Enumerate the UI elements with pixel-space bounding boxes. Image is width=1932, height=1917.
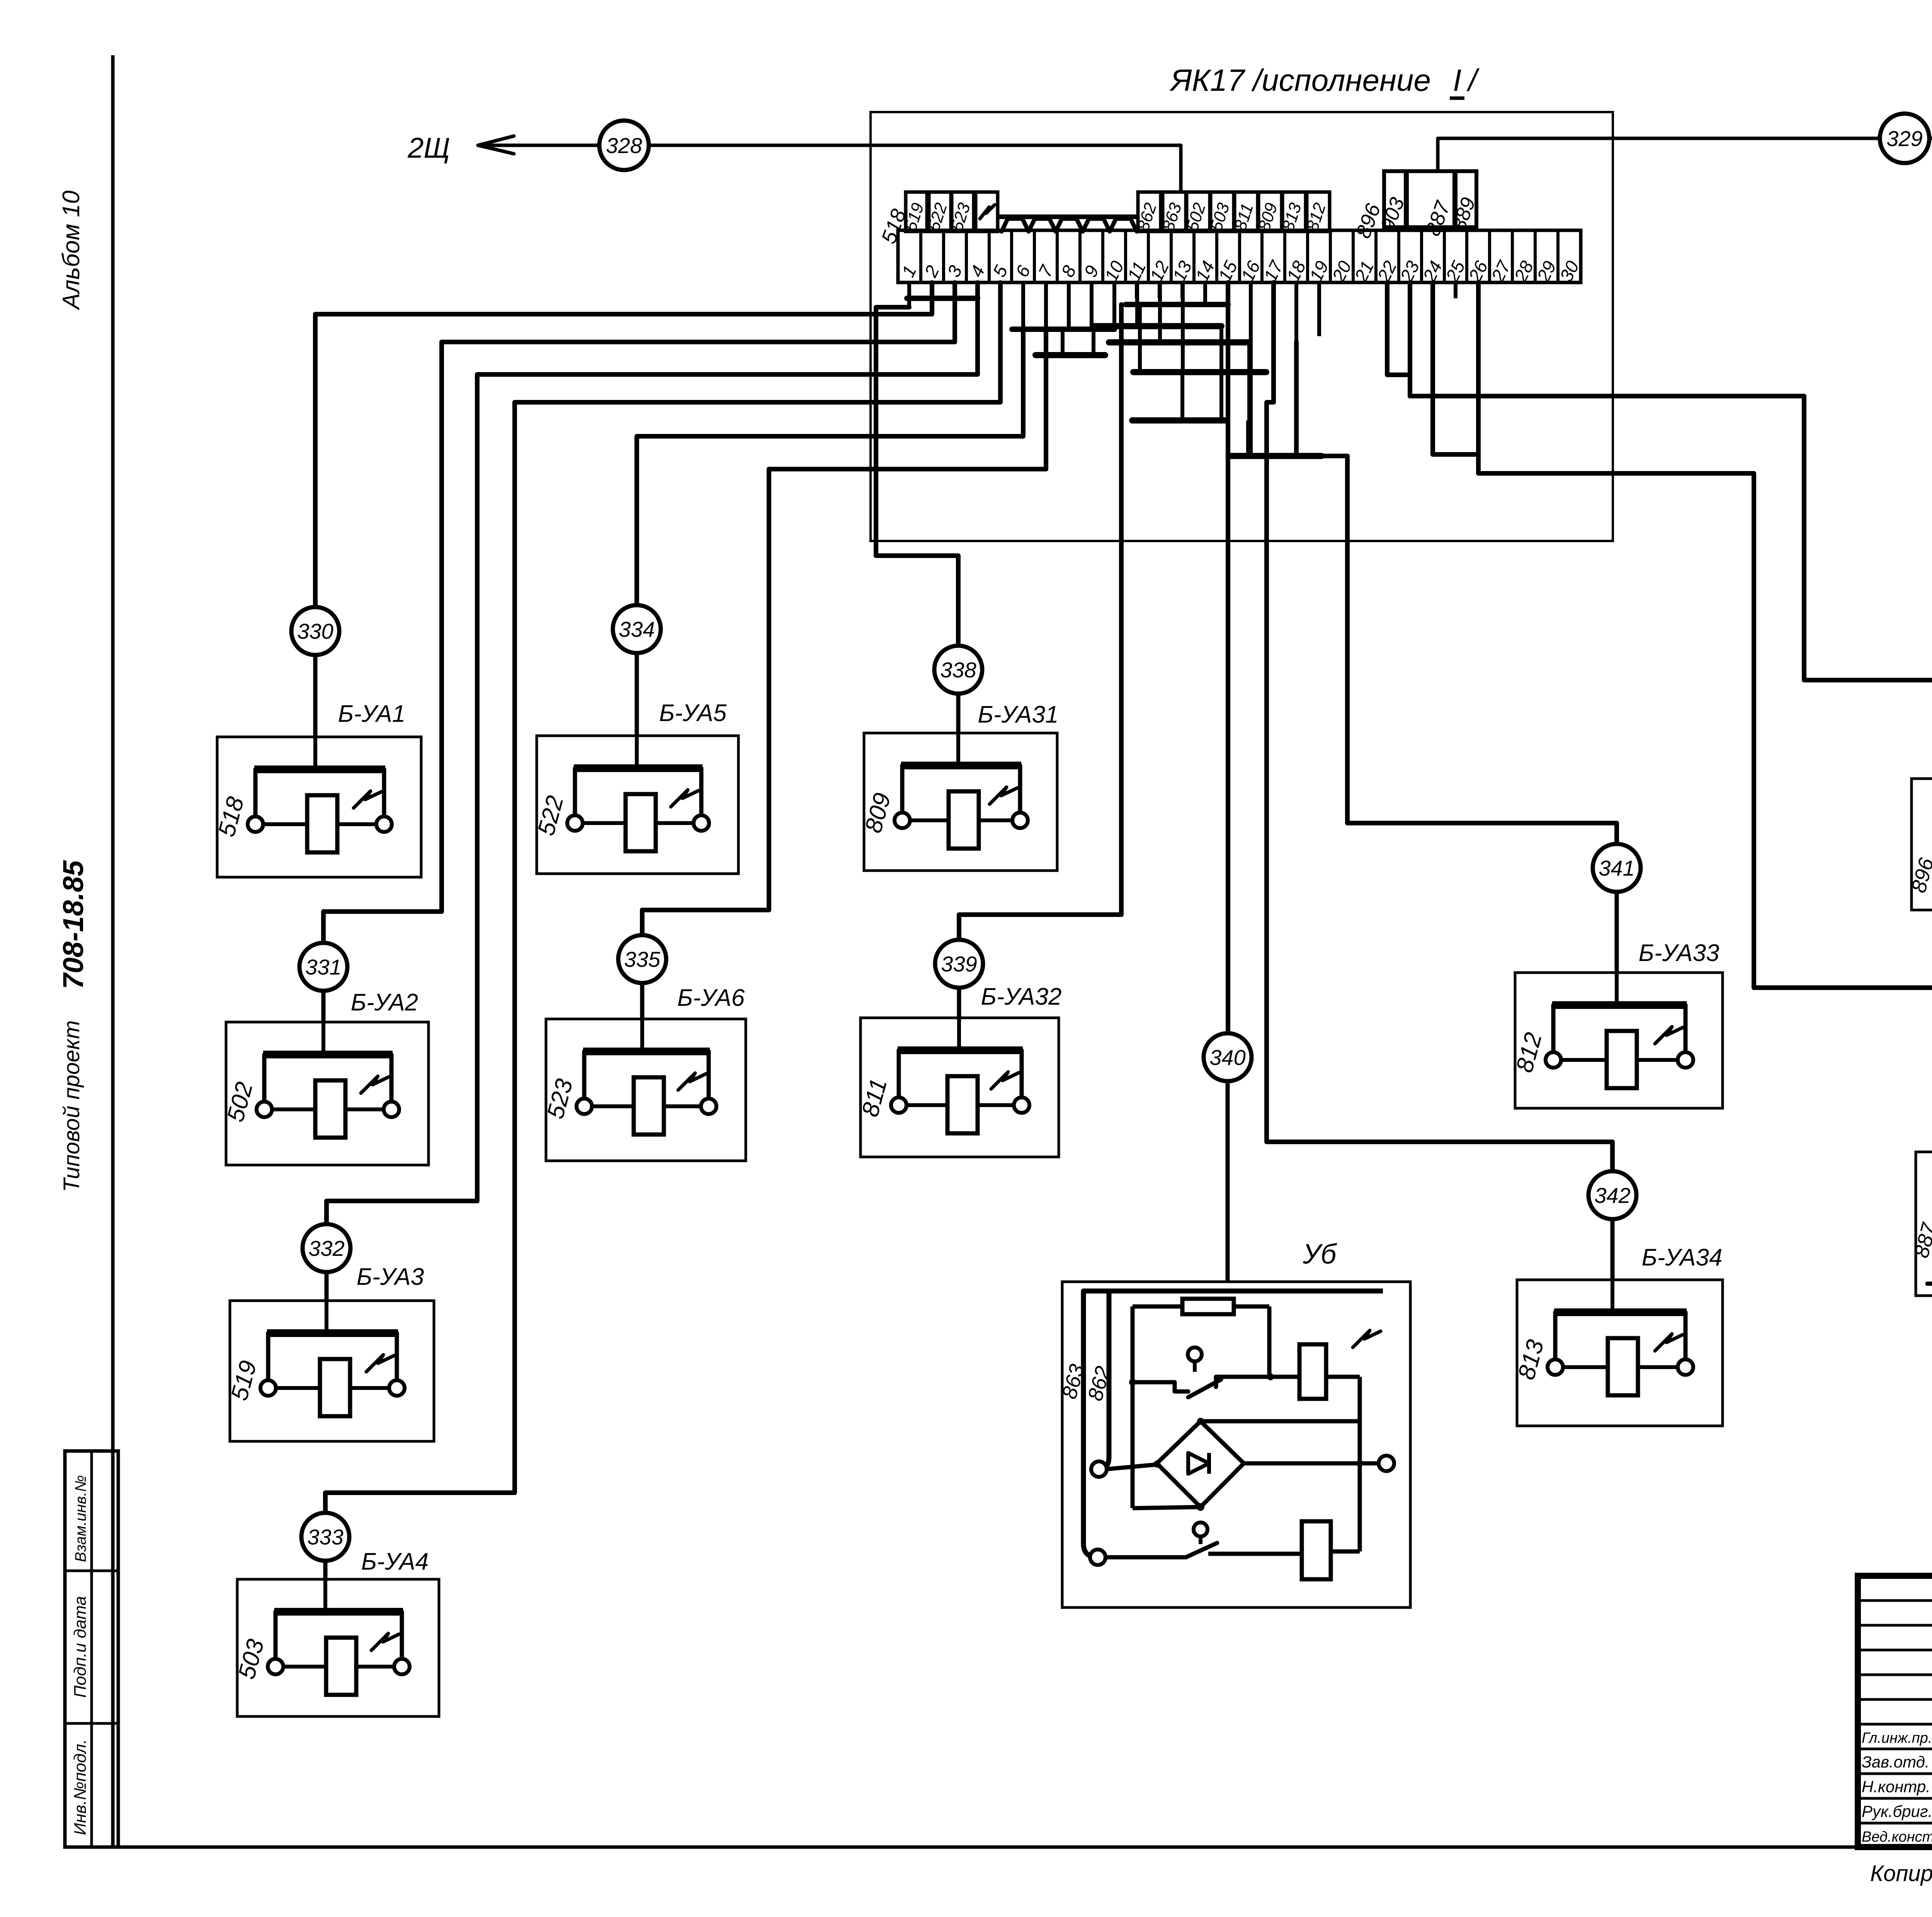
relay B-YA31 left lead [900, 765, 905, 813]
terminal divider 8 [1078, 230, 1082, 282]
VKB thermistor slash [1927, 1231, 1932, 1284]
svg-text:335: 335 [624, 947, 660, 971]
terminal divider 28 [1534, 230, 1537, 282]
relay B-YA3 top bar [267, 1329, 398, 1337]
relay B-YA33 left lead [1551, 1005, 1556, 1052]
sensor VKB box [1916, 1152, 1932, 1296]
node 332 wire-number circle [303, 1224, 350, 1272]
svg-text:330: 330 [297, 619, 333, 643]
relay B-YA1 right terminal [376, 816, 392, 832]
svg-text:Копировал: Копировал [1870, 1861, 1932, 1886]
node 328 wire-number circle [599, 121, 649, 170]
title block outer [1858, 1576, 1932, 1847]
node 334 wire-number circle [613, 605, 661, 653]
relay B-YA31 AC symbol [990, 787, 1017, 804]
svg-text:Взам.инв.№: Взам.инв.№ [72, 1475, 89, 1562]
svg-text:Б-УА33: Б-УА33 [1639, 940, 1719, 966]
Yb coil lower [1302, 1521, 1331, 1579]
relay B-YA6 right lead [707, 1051, 711, 1099]
jumper link 4 [1083, 219, 1110, 231]
wire 518 to circle 330 [315, 282, 932, 607]
relay B-YA34 left lead [1553, 1312, 1558, 1359]
relay B-YA32 top bar [898, 1046, 1023, 1054]
enclosure YAK17 box [871, 112, 1613, 541]
terminal divider 6 [1033, 230, 1036, 282]
svg-text:Б-УА2: Б-УА2 [351, 989, 418, 1016]
jumper link 2 [1029, 219, 1056, 231]
Yb bottom tap [1133, 1507, 1201, 1508]
relay B-YA4 coil 503 [283, 1665, 326, 1669]
terminal divider 22 [1397, 230, 1400, 282]
Yb resistor leads [1131, 1306, 1135, 1508]
bus under terminals 6-10 [1012, 327, 1114, 332]
wire 340 to Yb [1226, 1081, 1230, 1282]
wire label box 503 [1211, 192, 1234, 231]
relay B-YA3 right terminal [389, 1380, 405, 1396]
relay B-YA2 AC symbol [361, 1076, 389, 1093]
svg-text:Б-УА31: Б-УА31 [978, 701, 1059, 728]
relay B-YA4 top bar [274, 1608, 403, 1616]
terminal divider 12 [1170, 230, 1173, 282]
relay B-YA5 left terminal [567, 815, 583, 831]
node 339 wire-number circle [935, 940, 983, 988]
jumper link 3 [1056, 219, 1083, 231]
Yb left terminal 863 [1091, 1461, 1107, 1477]
relay B-YA5 right lead [699, 768, 704, 815]
Yb bridge right tap [1244, 1461, 1379, 1466]
terminal divider 10 [1124, 230, 1127, 282]
bus y844 [1094, 323, 1221, 329]
terminal divider 2 [942, 230, 945, 282]
svg-text:Рук.бриг.: Рук.бриг. [1862, 1802, 1932, 1820]
wire 333 to YA4 [323, 1561, 328, 1579]
relay B-YA4 box [237, 1579, 439, 1716]
node 329 wire-number circle [1880, 114, 1929, 163]
relay B-YA4 right terminal [394, 1659, 410, 1674]
terminal divider 15 [1238, 230, 1241, 282]
stub under terminal 19 [1317, 298, 1321, 336]
wire 335 to YA6 [640, 983, 645, 1019]
wire 862-863 pair to circle 340 [1226, 282, 1230, 1033]
Yb AC symbol [1353, 1330, 1381, 1347]
svg-text:I: I [1453, 63, 1461, 97]
relay B-YA1 left lead [253, 769, 258, 816]
terminal divider 23 [1420, 230, 1423, 282]
terminal divider 11 [1147, 230, 1150, 282]
terminal divider 18 [1306, 230, 1309, 282]
attribute table bottom-left [65, 1451, 118, 1847]
terminal stubs [907, 282, 911, 298]
relay B-YA3 left lead [266, 1333, 270, 1380]
wire 812 to circle 341 [1296, 342, 1617, 844]
relay B-YA34 box [1517, 1280, 1723, 1426]
relay B-YA31 right terminal [1012, 813, 1028, 828]
jumper link 5 [1110, 219, 1137, 231]
Yb inner top bar [1083, 1289, 1383, 1294]
relay B-YA6 box [546, 1019, 746, 1161]
wire 522 to circle 334 [637, 329, 1023, 605]
relay B-YA33 right lead [1684, 1005, 1688, 1052]
relay B-YA5 coil 522 [583, 821, 626, 825]
Yb left wire 863 [1083, 1291, 1098, 1557]
relay B-YA6 right terminal [701, 1099, 716, 1114]
relay B-YA1 AC symbol [354, 791, 381, 808]
bus y886 right [1109, 339, 1249, 345]
terminal divider 25 [1465, 230, 1468, 282]
relay B-YA3 coil 519 [276, 1386, 320, 1390]
node 330 wire-number circle [291, 607, 339, 655]
node 340 wire-number circle [1204, 1033, 1252, 1081]
Yb left terminal 862 [1090, 1550, 1105, 1565]
relay B-YA32 left terminal [891, 1097, 906, 1113]
relay B-YA34 right lead [1684, 1312, 1688, 1359]
bus under terminals 11-14 [1126, 302, 1228, 307]
wire 502 to circle 331 [323, 282, 955, 943]
relay B-YA32 coil 811 [906, 1103, 947, 1107]
sheet frame bottom border [65, 1846, 1932, 1849]
wire label box 813 [1282, 192, 1306, 231]
terminal strip XT 1..30 [898, 230, 1581, 282]
relay B-YA2 right terminal [384, 1102, 399, 1117]
relay B-YA32 wire entry [957, 1018, 961, 1050]
svg-text:Б-УА1: Б-УА1 [338, 701, 405, 727]
wire 332 to YA3 [325, 1272, 329, 1301]
relay B-YA31 coil 809 [910, 818, 949, 822]
relay B-YA4 left terminal [268, 1659, 283, 1674]
terminal divider 29 [1556, 230, 1560, 282]
node 333 wire-number circle [301, 1513, 349, 1561]
wire label box 523 [952, 192, 974, 231]
relay B-YA6 top bar [583, 1048, 710, 1055]
relay B-YA3 left terminal [260, 1380, 276, 1396]
wire label box 502 [1187, 192, 1210, 231]
wire 887-889 to circle 343 [1478, 282, 1932, 1071]
sheet frame left border [111, 55, 115, 1847]
wire 519 to circle 332 [327, 282, 978, 1224]
terminal divider 4 [988, 230, 991, 282]
wire 503 to circle 333 [325, 282, 1000, 1513]
svg-text:328: 328 [606, 133, 642, 158]
wire 331 to YA2 [321, 991, 326, 1022]
Yb resistor [1182, 1299, 1234, 1314]
svg-text:Б-УА32: Б-УА32 [981, 983, 1062, 1010]
node 335 wire-number circle [618, 935, 666, 983]
bus y963 [1133, 369, 1266, 375]
relay B-YA33 coil 812 [1561, 1058, 1607, 1062]
terminal divider 9 [1101, 230, 1104, 282]
bus y1180 [1229, 453, 1321, 459]
wire label box 862 [1138, 192, 1161, 231]
terminal divider 17 [1283, 230, 1286, 282]
Yb bridge rectifier [1157, 1421, 1244, 1507]
svg-text:Б-УА6: Б-УА6 [677, 985, 745, 1011]
svg-text:Вед.констр: Вед.констр [1862, 1829, 1932, 1845]
relay B-YA34 AC symbol [1655, 1334, 1683, 1351]
wire label box 811 [1235, 192, 1258, 231]
wire label box ~ [976, 192, 998, 231]
switch SKB box [1912, 779, 1932, 910]
relay B-YA2 right lead [389, 1055, 394, 1102]
relay B-YA3 box [230, 1301, 434, 1441]
Yb bridge diode [1188, 1453, 1209, 1474]
bus y919 [1036, 352, 1105, 358]
jumper link 1 [1002, 219, 1029, 231]
relay B-YA6 AC symbol [678, 1073, 706, 1090]
Yb right bus [1358, 1377, 1362, 1551]
wire label box 812 [1307, 192, 1330, 231]
wire 811 to circle 339 [959, 304, 1121, 940]
relay B-YA1 left terminal [248, 816, 263, 832]
relay B-YA6 coil 523 [592, 1104, 634, 1108]
svg-text:Уб: Уб [1303, 1239, 1337, 1270]
wire 328 continuation into enclosure [871, 145, 1181, 192]
relay B-YA3 wire entry [325, 1301, 328, 1333]
relay B-YA5 box [537, 736, 738, 874]
relay B-YA5 top bar [574, 764, 702, 772]
relay B-YA5 wire entry [635, 736, 639, 768]
relay B-YA3 AC symbol [366, 1355, 394, 1372]
wire 896-903 to circle 344 [1387, 282, 1932, 694]
relay B-YA34 top bar [1554, 1308, 1687, 1316]
svg-text:ЯК17 /исполнение: ЯК17 /исполнение [1169, 63, 1431, 97]
svg-text:708-18.85: 708-18.85 [57, 860, 89, 989]
terminal divider 27 [1511, 230, 1514, 282]
relay B-YA31 box [864, 733, 1057, 871]
node 331 wire-number circle [299, 943, 347, 991]
wire 342 to YA34 [1611, 1219, 1615, 1280]
svg-text:334: 334 [619, 617, 655, 641]
wire label box 863 [1163, 192, 1186, 231]
Yb coil upper [1299, 1344, 1326, 1399]
wire 334 to YA5 [635, 653, 639, 736]
wire 338 to YA31 [956, 694, 961, 733]
relay B-YA2 box [226, 1022, 429, 1165]
connection box above terminals 24-25 [1407, 171, 1454, 227]
relay B-YA4 left lead [274, 1612, 278, 1659]
Yb lower contact [1194, 1522, 1207, 1536]
terminal divider 14 [1215, 230, 1218, 282]
relay B-YA33 top bar [1552, 1001, 1687, 1009]
terminal divider 16 [1260, 230, 1264, 282]
svg-text:338: 338 [940, 658, 976, 682]
svg-text:Зав.отд.: Зав.отд. [1862, 1753, 1930, 1771]
relay B-YA5 left lead [573, 768, 577, 815]
relay B-YA4 wire entry [323, 1579, 327, 1612]
relay B-YA2 left terminal [257, 1102, 272, 1117]
terminal divider 1 [919, 230, 922, 282]
relay B-YA34 wire entry [1611, 1280, 1614, 1312]
relay B-YA6 left lead [582, 1051, 587, 1099]
Yb bridge top tap [1201, 1419, 1360, 1424]
relay B-YA4 AC symbol [371, 1633, 399, 1650]
wire 341 to YA33 [1615, 892, 1619, 973]
relay B-YA2 wire entry [321, 1022, 325, 1055]
relay B-YA1 right lead [382, 769, 386, 816]
terminal divider 21 [1374, 230, 1378, 282]
relay B-YA32 right terminal [1014, 1097, 1029, 1113]
relay B-YA6 left terminal [577, 1099, 592, 1114]
relay B-YA5 AC symbol [671, 790, 699, 807]
terminal divider 7 [1056, 230, 1059, 282]
relay B-YA6 wire entry [640, 1019, 644, 1051]
svg-text:342: 342 [1594, 1183, 1630, 1208]
svg-text:329: 329 [1886, 126, 1922, 151]
svg-text:Гл.инж.пр.: Гл.инж.пр. [1862, 1730, 1932, 1746]
wire 339 to YA32 [957, 988, 961, 1018]
relay B-YA1 box [217, 737, 421, 877]
relay B-YA32 AC symbol [991, 1072, 1019, 1089]
svg-text:341: 341 [1599, 856, 1634, 880]
node 341 wire-number circle [1593, 844, 1641, 892]
terminal divider 19 [1329, 230, 1332, 282]
relay B-YA31 top bar [901, 762, 1021, 769]
svg-text:Инв.№подл.: Инв.№подл. [71, 1739, 90, 1835]
wire label box 522 [929, 192, 951, 231]
node 342 wire-number circle [1588, 1171, 1636, 1219]
node 338 wire-number circle [934, 646, 982, 694]
relay B-YA33 AC symbol [1655, 1027, 1683, 1044]
relay B-YA33 box [1515, 973, 1723, 1108]
svg-text:Б-УА34: Б-УА34 [1642, 1244, 1723, 1271]
svg-text:2Щ: 2Щ [407, 132, 450, 164]
relay B-YA5 right terminal [694, 815, 709, 831]
wire label box 519 [906, 192, 927, 231]
relay B-YA34 left terminal [1548, 1359, 1563, 1375]
relay B-YA31 wire entry [956, 733, 960, 765]
relay B-YA4 right lead [400, 1612, 404, 1659]
svg-text:Б-УА4: Б-УА4 [361, 1548, 429, 1575]
terminal divider 24 [1443, 230, 1446, 282]
jumper bus under terminals 1-4 [907, 296, 978, 301]
svg-text:Альбом 10: Альбом 10 [58, 191, 85, 311]
terminal divider 26 [1488, 230, 1491, 282]
Yb contact upper [1188, 1347, 1202, 1361]
wire 813 to circle 342 [1267, 282, 1612, 1171]
relay B-YA32 left lead [897, 1050, 901, 1097]
relay B-YA1 top bar [254, 765, 385, 773]
relay B-YA34 coil 813 [1563, 1365, 1608, 1369]
relay B-YA33 left terminal [1546, 1052, 1561, 1068]
relay B-YA32 right lead [1020, 1050, 1024, 1097]
relay B-YA1 coil 518 [263, 822, 307, 826]
svg-text:Б-УА3: Б-УА3 [357, 1264, 424, 1290]
relay B-YA3 right lead [395, 1333, 399, 1380]
svg-text:340: 340 [1209, 1045, 1245, 1070]
wire 809 to circle 338 [876, 307, 958, 646]
terminal divider 20 [1352, 230, 1355, 282]
wire 330 to YA1 [313, 655, 318, 737]
jumper bus above terminals 6-10 [999, 214, 1138, 219]
relay B-YA2 top bar [263, 1051, 393, 1058]
svg-text:Н.контр.: Н.контр. [1862, 1778, 1930, 1796]
terminal divider 3 [965, 230, 968, 282]
relay B-YA34 right terminal [1678, 1359, 1693, 1375]
relay B-YA33 wire entry [1615, 973, 1619, 1005]
svg-text:Подп.и дата: Подп.и дата [71, 1596, 90, 1698]
wire label box 903 [1384, 171, 1406, 227]
relay B-YA31 left terminal [895, 813, 910, 828]
wire to 3Ya with arrow [1438, 138, 1932, 171]
svg-text:332: 332 [308, 1236, 344, 1260]
relay B-YA1 wire entry [313, 737, 317, 769]
terminal divider 5 [1010, 230, 1013, 282]
svg-text:333: 333 [307, 1525, 343, 1549]
relay B-YA32 box [861, 1018, 1059, 1157]
relay B-YA31 right lead [1018, 765, 1022, 813]
terminal divider 13 [1192, 230, 1196, 282]
relay B-YA2 coil 502 [272, 1107, 315, 1111]
Yb right terminal [1379, 1456, 1394, 1471]
Yb left wire 862 [1099, 1291, 1109, 1469]
relay B-YA2 left lead [262, 1055, 267, 1102]
svg-text:339: 339 [941, 952, 977, 976]
svg-text:Б-УА5: Б-УА5 [659, 700, 727, 726]
wire 523 to circle 335 [642, 329, 1046, 935]
svg-text:331: 331 [305, 955, 341, 979]
unit Yb box [1062, 1282, 1410, 1607]
wire to 2Shch with arrow [483, 144, 871, 147]
bus y1088 [1132, 417, 1225, 424]
wire label box 809 [1259, 192, 1282, 231]
svg-text:Типовой проект: Типовой проект [59, 1020, 84, 1192]
wire label box 889 [1456, 171, 1476, 227]
underline of I [1450, 97, 1464, 100]
relay B-YA33 right terminal [1678, 1052, 1693, 1068]
